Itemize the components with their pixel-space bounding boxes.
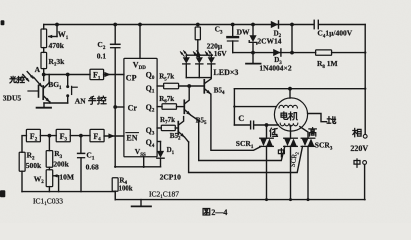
svg-text:1N4004×2: 1N4004×2	[259, 64, 291, 73]
svg-text:Cr: Cr	[128, 104, 138, 113]
svg-text:2CP10: 2CP10	[160, 172, 181, 181]
svg-text:C: C	[238, 114, 244, 123]
svg-text:500k: 500k	[26, 161, 42, 170]
svg-text:IC11C033: IC11C033	[33, 196, 63, 207]
svg-text:0.1: 0.1	[97, 52, 107, 61]
svg-text:100k: 100k	[119, 186, 133, 193]
svg-text:3DU5: 3DU5	[3, 94, 22, 103]
svg-text:2—4: 2—4	[211, 208, 227, 217]
svg-text:220V: 220V	[350, 144, 368, 153]
svg-text:DW: DW	[237, 28, 250, 37]
svg-text:A: A	[35, 65, 41, 74]
svg-text:AN: AN	[75, 97, 86, 106]
svg-text:CP: CP	[126, 73, 137, 82]
svg-text:0.68: 0.68	[86, 162, 99, 171]
svg-text:16V: 16V	[214, 49, 228, 58]
svg-text:200k: 200k	[53, 160, 69, 169]
svg-text:10M: 10M	[59, 172, 74, 181]
svg-text:470k: 470k	[49, 41, 65, 50]
svg-text:LED×3: LED×3	[213, 68, 238, 77]
svg-text:EN: EN	[126, 133, 137, 142]
svg-text:IC21C187: IC21C187	[149, 189, 179, 200]
